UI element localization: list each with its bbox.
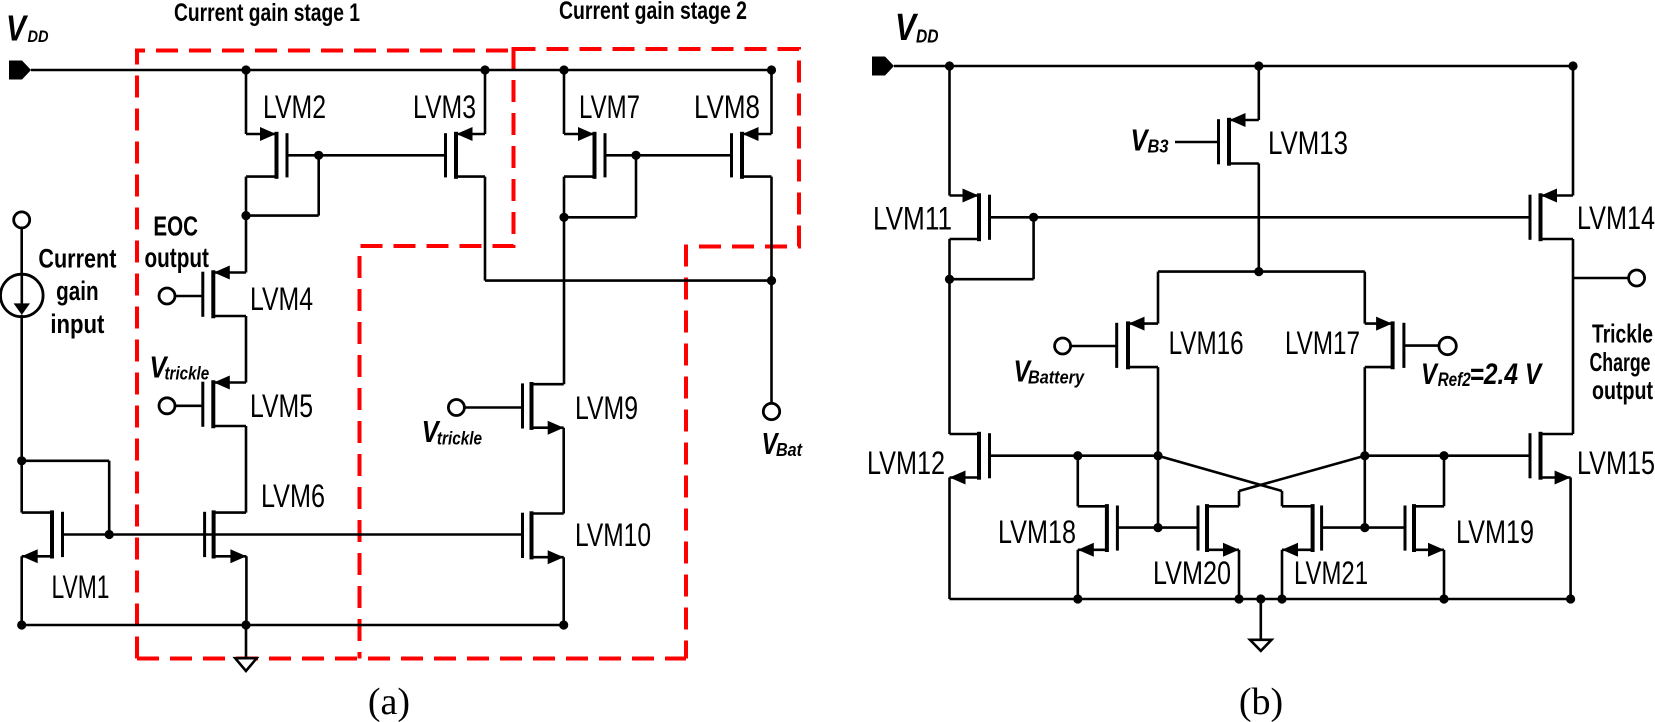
wire input terminal to current source — [20, 228, 23, 275]
svg-text:LVM5: LVM5 — [250, 388, 313, 424]
svg-text:LVM21: LVM21 — [1294, 555, 1368, 591]
svg-text:Bat: Bat — [776, 439, 803, 460]
node rail LVM18 — [1073, 594, 1082, 603]
svg-text:LVM15: LVM15 — [1577, 445, 1655, 481]
transistor LVM6 — [205, 510, 247, 563]
svg-text:(b): (b) — [1239, 681, 1283, 722]
node Current gain input terminal — [14, 212, 30, 228]
node Vtrickle terminal (stage 1) — [159, 398, 175, 414]
wire LVM12 gate lead — [990, 454, 1078, 457]
wire LVM3 drain down — [484, 177, 487, 281]
node rail ground tap — [1256, 594, 1265, 603]
svg-text:=2.4 V: =2.4 V — [1470, 358, 1544, 391]
wire LVM10 source to ground rail — [562, 557, 565, 625]
node VDD-LVM8 — [767, 65, 776, 74]
wire node A to LVM1 gate tie — [22, 459, 110, 462]
transistor LVM16 — [1117, 317, 1158, 370]
svg-text:LVM11: LVM11 — [873, 201, 952, 237]
svg-text:LVM10: LVM10 — [575, 517, 651, 553]
current source I1 (Current gain input) — [1, 274, 44, 317]
svg-text:LVM2: LVM2 — [263, 89, 326, 125]
wire LVM15 gate lead — [1365, 454, 1530, 457]
wire LVM1 source to ground rail — [20, 556, 23, 626]
wire tail rail — [1158, 270, 1365, 273]
wire VB3 to LVM13 gate — [1175, 141, 1219, 144]
node VDD-LVM13 — [1254, 61, 1263, 70]
wire LVM3 drain to VBat node — [485, 279, 772, 282]
wire LVM11 drain to LVM12 drain — [948, 279, 951, 434]
svg-text:LVM12: LVM12 — [867, 445, 945, 481]
wire LVM16 drain down — [1157, 367, 1160, 527]
wire LVM11 gate to LVM14 gate — [1034, 216, 1530, 219]
wire LVM2 drain down — [245, 177, 248, 216]
svg-text:DD: DD — [28, 27, 49, 46]
wire VDD rail (b) — [894, 65, 1573, 68]
node LVM1 gate junction — [105, 530, 114, 539]
wire LVM20 gate to node — [1158, 526, 1197, 529]
wire Vtrickle terminal to LVM5 gate — [175, 404, 204, 407]
svg-text:LVM18: LVM18 — [998, 514, 1076, 550]
node VRef2 terminal — [1439, 337, 1456, 354]
transistor LVM18 — [1078, 504, 1118, 557]
wire LVM15 source to ground rail — [1569, 478, 1572, 600]
svg-text:(a): (a) — [368, 681, 410, 722]
node VDD-LVM11 — [945, 61, 954, 70]
wire LVM18 source down — [1077, 550, 1080, 599]
svg-text:Charge: Charge — [1590, 347, 1651, 377]
wire output tee to terminal — [1573, 277, 1630, 280]
wire LVM9 source to LVM10 drain — [562, 428, 565, 514]
transistor LVM20 — [1198, 504, 1239, 557]
svg-text:LVM8: LVM8 — [694, 89, 760, 125]
wire LVM14 source from VDD — [1572, 66, 1575, 196]
node LVM18 drain junction — [1073, 451, 1082, 460]
svg-text:V: V — [1421, 358, 1439, 391]
node ground rail right — [559, 620, 568, 629]
wire LVM18 gate to node — [1118, 526, 1157, 529]
node EOC output terminal — [159, 288, 175, 304]
wire cross-couple LVM17 drain to LVM20 drain — [1239, 456, 1365, 491]
wire LVM20 source down — [1238, 550, 1241, 599]
svg-text:B3: B3 — [1148, 135, 1170, 156]
wire LVM8 source from VDD — [770, 70, 773, 134]
svg-text:LVM9: LVM9 — [575, 390, 638, 426]
wire Vtrickle terminal to LVM9 gate — [464, 406, 523, 409]
wire cross-couple LVM16 drain to LVM21 drain — [1158, 456, 1282, 491]
wire LVM2 gate tie — [287, 154, 319, 157]
transistor LVM9 — [523, 382, 564, 435]
svg-text:Trickle: Trickle — [1592, 319, 1653, 349]
node VBat junction — [767, 276, 776, 285]
wire LVM7 gate tie — [605, 154, 636, 157]
svg-text:V: V — [895, 7, 918, 49]
svg-text:EOC: EOC — [153, 211, 198, 242]
transistor LVM2 — [246, 127, 287, 179]
VDD supply arrow (a) — [9, 61, 31, 80]
node VDD-LVM2 — [241, 65, 250, 74]
node Vtrickle terminal (stage 2) — [448, 400, 464, 416]
svg-text:Current gain stage 1: Current gain stage 1 — [174, 0, 360, 27]
node LVM7 gate-drain junction — [631, 151, 640, 160]
node LVM7 drain junction — [559, 213, 568, 222]
wire LVM4 drain to LVM5 source — [245, 316, 248, 383]
transistor LVM10 — [523, 511, 564, 564]
node ground rail left — [17, 620, 26, 629]
wire LVM21 gate to node — [1323, 526, 1365, 529]
transistor LVM12 — [950, 432, 990, 485]
node rail LVM19 — [1439, 594, 1448, 603]
wire LVM1 drain feed — [20, 461, 23, 513]
svg-text:output: output — [1592, 375, 1653, 405]
node LVM21-LVM19 gate junction — [1360, 523, 1369, 532]
wire LVM18 drain feed — [1077, 456, 1080, 507]
wire VRef2 to LVM17 gate — [1404, 344, 1439, 347]
node rail LVM20 — [1234, 594, 1243, 603]
transistor LVM4 — [203, 266, 246, 319]
svg-text:LVM4: LVM4 — [250, 281, 313, 317]
node VDD-LVM7 — [559, 65, 568, 74]
wire LVM17 drain down — [1364, 367, 1367, 527]
wire to VBat terminal — [770, 281, 773, 404]
VDD supply arrow (b) — [872, 57, 894, 76]
svg-text:trickle: trickle — [165, 363, 210, 384]
node ground rail mid — [241, 620, 250, 629]
wire LVM19 drain feed — [1443, 456, 1446, 507]
transistor LVM1 — [22, 510, 63, 563]
wire LVM2 source from VDD — [245, 70, 248, 134]
transistor LVM7 — [564, 127, 605, 179]
wire LVM2 gate to LVM3 gate — [319, 154, 446, 157]
transistor LVM8 — [732, 127, 772, 179]
node rail LVM21 — [1277, 594, 1286, 603]
node LVM11 gate junction — [1029, 213, 1038, 222]
wire LVM11 drain down — [948, 239, 951, 279]
node VDD-LVM3 — [480, 65, 489, 74]
transistor LVM11 — [950, 189, 990, 242]
svg-text:LVM16: LVM16 — [1169, 325, 1244, 361]
node rail LVM15 — [1566, 594, 1575, 603]
svg-text:output: output — [145, 242, 209, 273]
wire LVM3 source from VDD — [484, 70, 487, 134]
wire LVM13 source from VDD — [1258, 66, 1261, 120]
dashed box Current gain stage 1 — [137, 47, 686, 659]
wire gate net LVM1-LVM6-LVM10 — [63, 533, 523, 536]
node LVM11 drain junction — [945, 275, 954, 284]
svg-text:Current gain stage 2: Current gain stage 2 — [559, 0, 747, 25]
node LVM2 gate-drain junction — [314, 151, 323, 160]
node LVM16 drain junction — [1153, 451, 1162, 460]
svg-text:LVM20: LVM20 — [1153, 555, 1231, 591]
node tail junction — [1254, 267, 1263, 276]
svg-text:DD: DD — [916, 26, 939, 46]
node A junction — [17, 456, 26, 465]
wire LVM19 source down — [1443, 550, 1446, 599]
wire LVM7 source from VDD — [563, 70, 566, 134]
transistor LVM15 — [1530, 432, 1573, 485]
node Trickle Charge output terminal — [1629, 270, 1645, 286]
wire ground rail (a) — [22, 624, 564, 627]
wire LVM12 source to ground rail — [948, 478, 951, 600]
wire LVM14 drain down to output tee — [1572, 239, 1575, 434]
transistor LVM17 — [1365, 317, 1404, 370]
wire current source to node A — [20, 315, 23, 461]
wire LVM5 drain to LVM6 drain — [245, 426, 248, 513]
svg-text:gain: gain — [56, 276, 99, 306]
svg-text:trickle: trickle — [437, 428, 482, 449]
transistor LVM13 — [1219, 113, 1259, 166]
wire LVM7 drain down — [563, 177, 566, 385]
svg-text:LVM1: LVM1 — [52, 569, 110, 605]
svg-text:LVM13: LVM13 — [1268, 125, 1348, 161]
wire LVM19 gate to node — [1365, 526, 1404, 529]
wire LVM21 source down — [1281, 550, 1284, 599]
svg-text:Ref2: Ref2 — [1438, 369, 1471, 391]
node LVM18-LVM20 gate junction — [1153, 523, 1162, 532]
node VDD-LVM14 — [1568, 61, 1577, 70]
transistor LVM5 — [203, 376, 246, 429]
node LVM17 drain junction — [1360, 451, 1369, 460]
svg-text:LVM17: LVM17 — [1285, 325, 1360, 361]
wire LVM8 drain down — [770, 177, 773, 281]
wire ground rail (b) — [950, 598, 1571, 601]
svg-text:input: input — [50, 309, 104, 339]
ground symbol (a) — [235, 625, 257, 671]
wire LVM13 drain to tail node — [1258, 164, 1261, 272]
svg-text:LVM14: LVM14 — [1577, 200, 1655, 236]
wire VBattery to LVM16 gate — [1071, 345, 1117, 348]
node LVM19 drain junction — [1439, 451, 1448, 460]
dashed box Current gain stage 2 — [514, 49, 800, 659]
transistor LVM3 — [446, 127, 486, 179]
svg-text:LVM6: LVM6 — [261, 478, 325, 514]
svg-text:LVM19: LVM19 — [1456, 514, 1534, 550]
wire LVM7 gate to LVM8 gate — [636, 154, 732, 157]
ground symbol (b) — [1250, 599, 1272, 651]
wire LVM4 source feed — [245, 216, 248, 273]
svg-text:LVM7: LVM7 — [579, 89, 640, 125]
transistor LVM21 — [1282, 504, 1322, 557]
wire LVM6 source to ground rail — [245, 556, 248, 626]
svg-text:V: V — [6, 8, 28, 49]
wire EOC terminal to LVM4 gate — [175, 295, 204, 298]
wire LVM11 gate tie — [990, 216, 1034, 219]
svg-text:LVM3: LVM3 — [413, 89, 476, 125]
transistor LVM19 — [1405, 504, 1444, 557]
svg-text:Current: Current — [38, 244, 116, 274]
node LVM2 drain junction — [241, 211, 250, 220]
transistor LVM14 — [1530, 189, 1573, 242]
node VBat terminal — [763, 403, 779, 419]
wire VDD rail (a) — [31, 69, 772, 72]
wire LVM16 drain node horizontal — [1078, 454, 1158, 457]
wire LVM11 source from VDD — [948, 66, 951, 196]
svg-text:Battery: Battery — [1028, 366, 1086, 387]
node VBattery terminal — [1055, 338, 1071, 354]
